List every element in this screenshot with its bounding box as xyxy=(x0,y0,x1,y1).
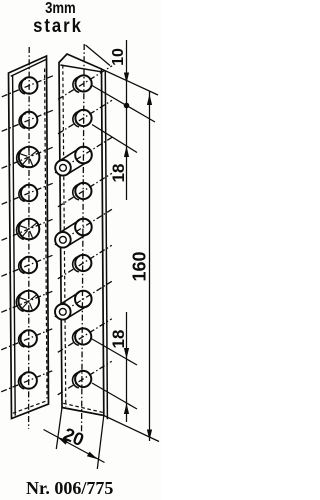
right strip hole row 6 xyxy=(75,255,91,271)
left strip hole row 2 xyxy=(21,112,37,128)
extension line 20 right xyxy=(97,416,104,470)
extension line top edge xyxy=(102,69,159,95)
extension line hole row 9 xyxy=(92,383,137,409)
centerline left hole axis row 4 xyxy=(2,183,55,205)
centerline right strip vertical dash-dot xyxy=(82,44,85,437)
right strip hidden left edge dashed xyxy=(63,65,66,407)
centerline right hole axis row 2 xyxy=(58,100,112,134)
left strip boss row 7 xyxy=(19,291,40,312)
extension line 20 left xyxy=(56,408,62,450)
leader line 3mm stark xyxy=(86,45,111,66)
dimension text 160 xyxy=(129,241,150,291)
arrow 20 left xyxy=(57,437,68,445)
centerline left hole axis row 9 xyxy=(1,370,54,392)
dimension text 18 upper xyxy=(109,153,129,193)
arrow 10 lower (down at top-edge ext) xyxy=(124,73,129,84)
centerline left hole axis row 3 xyxy=(2,147,55,169)
left strip inner top edge xyxy=(11,59,47,76)
centerline left hole axis row 5 xyxy=(2,219,55,241)
centerline right hole axis row 6 xyxy=(58,245,112,278)
centerline left strip vertical dash-dot xyxy=(28,47,31,429)
right strip hole row 9 xyxy=(75,371,91,387)
label stark xyxy=(7,16,109,38)
left strip face outline xyxy=(9,56,49,419)
dimension line 160 vertical xyxy=(149,92,151,442)
centerline left hole axis row 2 xyxy=(2,110,55,132)
right strip inner top edge xyxy=(60,65,101,72)
centerline right hole axis row 3 xyxy=(55,137,112,173)
left strip hole row 4 xyxy=(21,185,37,201)
label 3mm xyxy=(11,0,110,18)
centerline right hole axis row 5 xyxy=(55,209,112,245)
arrow 18 lower down at row8 ext xyxy=(124,348,129,359)
left strip inner left edge xyxy=(13,75,16,415)
extension line hole row 2 xyxy=(92,125,137,153)
extension line bottom edge xyxy=(104,416,159,442)
extension line hole row 8 xyxy=(92,339,137,365)
right strip face outline xyxy=(59,54,104,416)
dimension text 10 xyxy=(110,37,128,77)
centerline right hole axis row 9 xyxy=(58,361,112,395)
part number Nr. 006/775 xyxy=(26,478,113,499)
left strip hole row 8 xyxy=(21,330,37,346)
right strip hole row 1 xyxy=(76,75,92,91)
right strip cylinder boss row 5 xyxy=(75,219,92,236)
centerline right hole axis row 7 xyxy=(55,281,112,317)
centerline left hole axis row 6 xyxy=(1,255,54,277)
arrow 160 top xyxy=(147,94,152,105)
arrow junction dot at row1 ext xyxy=(124,103,130,109)
right strip cylinder boss row 3 xyxy=(75,147,92,164)
left strip hole row 6 xyxy=(21,257,37,273)
left strip boss row 3 xyxy=(19,147,40,168)
extension line hole row 1 xyxy=(92,86,155,123)
dimension text 18 lower xyxy=(109,319,129,359)
centerline right hole axis row 8 xyxy=(58,319,112,353)
left strip hidden bottom edge dashed xyxy=(13,401,47,413)
dimension text 20 xyxy=(56,422,91,453)
centerline right hole axis row 4 xyxy=(58,173,112,207)
dimension line 18 lower vertical xyxy=(126,312,128,422)
right strip hole row 4 xyxy=(75,183,91,199)
left strip hidden right edge dashed xyxy=(45,69,47,399)
right strip hidden bottom edge dashed xyxy=(63,403,103,412)
right strip outer right edge xyxy=(105,71,107,419)
left strip boss row 5 xyxy=(19,219,40,240)
left strip hole row 1 xyxy=(21,77,37,93)
dimension line 20 xyxy=(44,430,105,463)
centerline right hole axis row 1 xyxy=(58,66,112,100)
arrow 160 bottom xyxy=(147,430,152,441)
right strip hole row 8 xyxy=(75,328,91,344)
arrow 20 right xyxy=(87,452,98,460)
right strip cylinder boss row 7 xyxy=(75,291,92,308)
dimension line 10/18 upper vertical xyxy=(126,40,128,200)
right strip hole row 2 xyxy=(75,110,91,126)
left strip hole row 9 xyxy=(21,372,37,388)
arrow 18 lower up at row9 ext xyxy=(124,403,129,414)
centerline left hole axis row 8 xyxy=(1,328,54,350)
centerline left hole axis row 7 xyxy=(1,291,54,313)
centerline left hole axis row 1 xyxy=(2,75,55,97)
arrow 18 upper (up at row2 ext) xyxy=(124,146,129,157)
